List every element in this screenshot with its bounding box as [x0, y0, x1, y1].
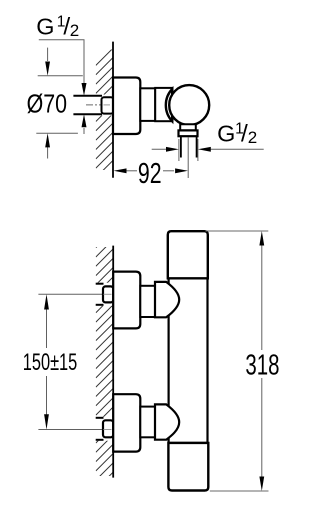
arrow up to pipe bottom edge + stub — [83, 128, 85, 134]
150 lower extension/centerline — [38, 429, 102, 431]
150±15 dimension line lower part + down arrow — [46, 376, 48, 416]
centerline dash inside upper nut — [104, 293, 112, 295]
Ø70 extension line top — [38, 75, 83, 77]
svg-text:150±15: 150±15 — [23, 349, 78, 376]
inlet centerline (top view) — [86, 104, 112, 106]
lower union nut at wall — [103, 420, 113, 437]
Ø70 arrow up (below) — [47, 147, 49, 159]
Ø70 arrow down (above) — [47, 48, 49, 61]
inlet pipe behind wall (top view) — [73, 95, 102, 97]
upper S-union cylinder — [140, 286, 155, 317]
thermostat handle circle (top view) — [169, 85, 209, 125]
outlet nut (top view) — [179, 130, 198, 136]
escutcheon flange (top view) — [113, 78, 140, 135]
pipe nut at wall (top view) — [102, 97, 114, 113]
mixer body tube — [169, 278, 208, 443]
centerline dash inside lower nut — [104, 429, 112, 431]
svg-text:2: 2 — [70, 21, 79, 40]
outlet pipe (top view) — [180, 136, 182, 157]
svg-text:2: 2 — [248, 128, 257, 147]
svg-text:G: G — [217, 121, 235, 147]
upper escutcheon (bottom view) — [113, 272, 140, 329]
outlet collar below circle (top view) — [180, 124, 196, 130]
upper union nut at wall — [103, 286, 113, 302]
top cap of body — [168, 231, 208, 278]
upper S-union bell — [155, 282, 179, 317]
dimension label G 1/2 (top left) — [36, 13, 79, 40]
lower S-union cylinder — [140, 407, 155, 438]
92 dimension line + text — [126, 170, 137, 172]
svg-text:Ø70: Ø70 — [27, 90, 67, 120]
wall face line (bottom view) — [112, 246, 114, 478]
lower S-union bell — [155, 404, 179, 439]
lower pipe stub lines — [96, 417, 104, 419]
handle collar arc (top view) — [166, 89, 172, 121]
wall face line (top view) — [112, 42, 114, 178]
svg-text:G: G — [36, 14, 54, 40]
bottom cap of body — [168, 443, 208, 491]
neck cylinder A (top view) — [140, 88, 155, 121]
leader line for G 1/2 top — [39, 40, 84, 83]
Ø70 extension line bottom — [36, 132, 78, 134]
upper wall hole edge lines — [96, 283, 104, 285]
150±15 dimension line upper part + up arrow — [46, 309, 48, 349]
centerline dash inside wall nut (top view) — [104, 104, 111, 106]
318 dimension line lower part + down arrow — [261, 378, 263, 477]
lower escutcheon (bottom view) — [113, 394, 140, 451]
arrow down to pipe top edge — [82, 83, 87, 96]
dimension label G 1/2 (outlet, right) — [217, 120, 257, 147]
outlet centerline / 92 extension line (top view) — [187, 137, 189, 178]
318 top extension line — [206, 230, 269, 232]
neck cylinder B (top view) — [155, 88, 172, 121]
318 dimension line upper part + up arrow — [261, 245, 263, 351]
svg-text:318: 318 — [245, 350, 279, 381]
svg-text:92: 92 — [138, 158, 162, 190]
G 1/2 outlet dimension line left segment + arrow — [178, 139, 180, 161]
318 bottom extension line — [210, 490, 269, 492]
150 upper extension/centerline — [38, 293, 102, 295]
G 1/2 outlet dimension line right segment + arrow — [205, 148, 264, 150]
